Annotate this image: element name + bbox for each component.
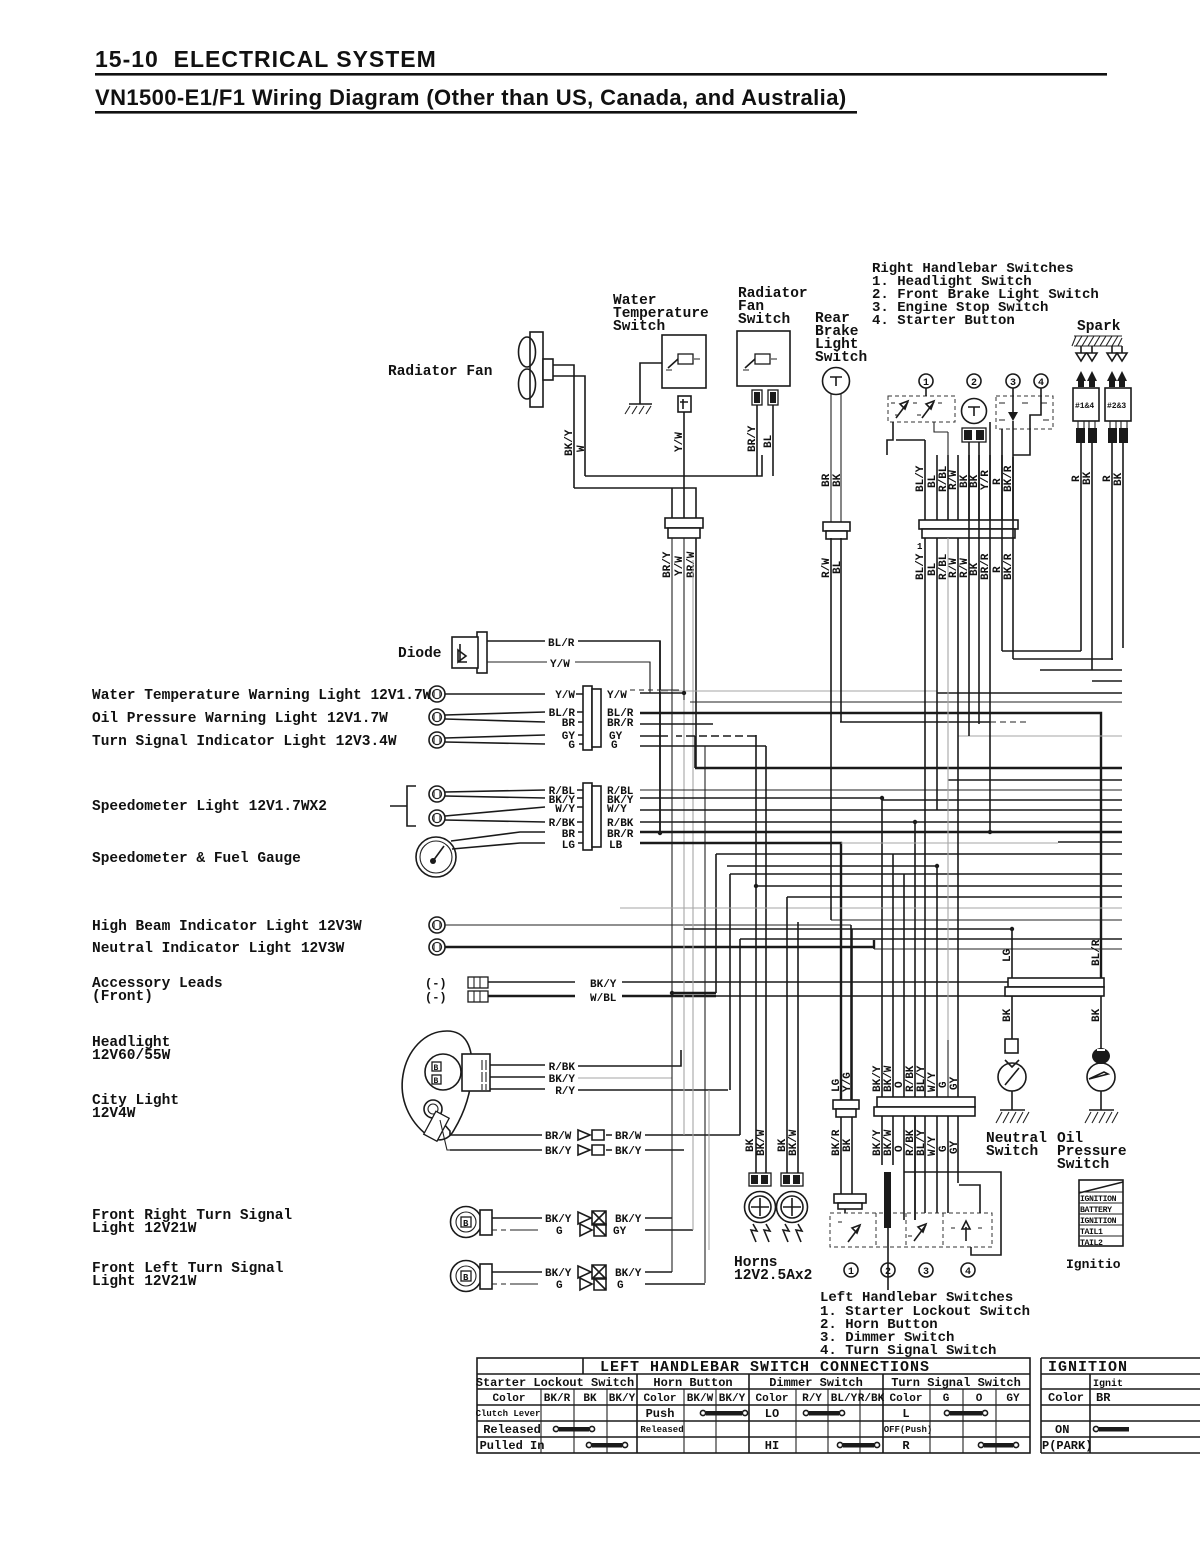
svg-text:BK: BK xyxy=(1091,1008,1103,1022)
svg-text:1: 1 xyxy=(848,1267,854,1278)
svg-text:TAIL2: TAIL2 xyxy=(1080,1239,1103,1248)
svg-text:VN1500-E1/F1 Wiring Diagram (O: VN1500-E1/F1 Wiring Diagram (Other than … xyxy=(95,85,847,110)
svg-text:BK/Y: BK/Y xyxy=(564,429,576,456)
svg-text:Y/W: Y/W xyxy=(555,690,575,702)
svg-text:Water Temperature Warning Ligh: Water Temperature Warning Light 12V1.7W xyxy=(92,688,432,704)
svg-text:BK: BK xyxy=(1113,472,1125,486)
svg-text:BK/Y: BK/Y xyxy=(609,1393,636,1405)
svg-text:BL/Y: BL/Y xyxy=(915,465,927,492)
svg-text:Y/W: Y/W xyxy=(550,659,570,671)
svg-text:1: 1 xyxy=(923,378,929,389)
svg-text:R/BK: R/BK xyxy=(549,1062,576,1074)
svg-text:BL/R: BL/R xyxy=(1091,939,1103,966)
svg-text:IGNITION: IGNITION xyxy=(1048,1359,1128,1376)
svg-text:Starter Lockout Switch: Starter Lockout Switch xyxy=(476,1376,634,1390)
svg-text:#2&3: #2&3 xyxy=(1107,402,1126,411)
svg-text:Turn Signal Indicator Light 12: Turn Signal Indicator Light 12V3.4W xyxy=(92,734,397,750)
svg-text:Pulled In: Pulled In xyxy=(480,1439,545,1453)
svg-text:L: L xyxy=(902,1407,909,1421)
svg-text:4: 4 xyxy=(1038,378,1044,389)
svg-text:4: 4 xyxy=(965,1267,971,1278)
svg-text:GY: GY xyxy=(1006,1393,1020,1405)
svg-text:O: O xyxy=(976,1393,983,1405)
svg-text:G: G xyxy=(617,1280,624,1292)
svg-text:BK/Y: BK/Y xyxy=(615,1268,642,1280)
svg-text:W/Y: W/Y xyxy=(607,804,627,816)
svg-text:LB: LB xyxy=(609,840,623,852)
svg-text:15-10 ELECTRICAL SYSTEM: 15-10 ELECTRICAL SYSTEM xyxy=(95,46,437,72)
svg-text:BK: BK xyxy=(1002,1008,1014,1022)
svg-text:Oil Pressure Warning Light 12V: Oil Pressure Warning Light 12V1.7W xyxy=(92,711,388,727)
svg-text:Speedometer & Fuel Gauge: Speedometer & Fuel Gauge xyxy=(92,851,301,867)
svg-text:GY: GY xyxy=(949,1076,961,1090)
svg-text:Light 12V21W: Light 12V21W xyxy=(92,1221,197,1237)
svg-text:BK/R: BK/R xyxy=(544,1393,571,1405)
svg-text:R/Y: R/Y xyxy=(802,1393,822,1405)
svg-text:W/BL: W/BL xyxy=(590,993,617,1005)
svg-text:BR: BR xyxy=(562,718,576,730)
svg-text:BK/Y: BK/Y xyxy=(545,1146,572,1158)
svg-text:Dimmer Switch: Dimmer Switch xyxy=(769,1376,863,1390)
svg-text:4. Starter Button: 4. Starter Button xyxy=(872,313,1015,329)
svg-text:Switch: Switch xyxy=(815,350,867,366)
svg-text:Neutral Indicator Light 12V3W: Neutral Indicator Light 12V3W xyxy=(92,941,345,957)
svg-text:R: R xyxy=(902,1439,910,1453)
svg-text:Switch: Switch xyxy=(613,319,665,335)
svg-text:Spark: Spark xyxy=(1077,319,1121,335)
svg-text:Released: Released xyxy=(483,1423,541,1437)
svg-text:BK/Y: BK/Y xyxy=(545,1268,572,1280)
svg-text:G: G xyxy=(611,740,618,752)
svg-text:BK: BK xyxy=(583,1393,597,1405)
svg-text:BL: BL xyxy=(763,434,775,448)
svg-text:Y/W: Y/W xyxy=(607,690,627,702)
svg-text:GY: GY xyxy=(949,1140,961,1154)
svg-text:Push: Push xyxy=(646,1407,675,1421)
svg-text:Diode: Diode xyxy=(398,646,442,662)
svg-text:BR/W: BR/W xyxy=(545,1131,572,1143)
svg-text:BR/W: BR/W xyxy=(615,1131,642,1143)
svg-text:G: G xyxy=(568,740,575,752)
svg-text:P(PARK): P(PARK) xyxy=(1042,1439,1092,1453)
svg-text:HI: HI xyxy=(765,1439,779,1453)
svg-text:Y/W: Y/W xyxy=(674,432,686,452)
svg-text:Color: Color xyxy=(643,1393,676,1405)
svg-text:4. Turn Signal Switch: 4. Turn Signal Switch xyxy=(820,1343,996,1359)
svg-text:BR/Y: BR/Y xyxy=(747,425,759,452)
svg-text:Horn Button: Horn Button xyxy=(653,1376,732,1390)
svg-text:(-): (-) xyxy=(425,977,447,991)
svg-text:Light 12V21W: Light 12V21W xyxy=(92,1274,197,1290)
svg-text:BK/Y: BK/Y xyxy=(590,979,617,991)
svg-text:Y/G: Y/G xyxy=(842,1072,854,1092)
svg-text:Speedometer Light 12V1.7WX2: Speedometer Light 12V1.7WX2 xyxy=(92,799,327,815)
svg-text:Color: Color xyxy=(889,1393,922,1405)
svg-text:3: 3 xyxy=(1010,378,1016,389)
svg-text:(-): (-) xyxy=(425,991,447,1005)
svg-text:3: 3 xyxy=(923,1267,929,1278)
svg-text:W/Y: W/Y xyxy=(555,804,575,816)
svg-text:Turn Signal Switch: Turn Signal Switch xyxy=(891,1376,1021,1390)
svg-text:BR: BR xyxy=(1096,1391,1111,1405)
svg-text:LG: LG xyxy=(562,840,576,852)
svg-text:Ignitio: Ignitio xyxy=(1066,1257,1121,1272)
svg-text:BK/W: BK/W xyxy=(687,1393,714,1405)
svg-text:B: B xyxy=(463,1219,469,1229)
svg-text:BL/R: BL/R xyxy=(548,638,575,650)
svg-text:BK: BK xyxy=(842,1138,854,1152)
svg-text:BL/Y: BL/Y xyxy=(831,1393,858,1405)
svg-text:ON: ON xyxy=(1055,1423,1069,1437)
svg-text:R/BK: R/BK xyxy=(858,1393,885,1405)
svg-text:BK/Y: BK/Y xyxy=(545,1214,572,1226)
svg-text:BL: BL xyxy=(832,560,844,574)
svg-text:LEFT HANDLEBAR SWITCH CONNECTI: LEFT HANDLEBAR SWITCH CONNECTIONS xyxy=(600,1359,930,1376)
svg-text:2: 2 xyxy=(971,378,977,389)
svg-text:#1&4: #1&4 xyxy=(1075,402,1094,411)
svg-text:B: B xyxy=(463,1273,469,1283)
svg-text:Clutch Lever: Clutch Lever xyxy=(476,1409,541,1419)
svg-text:W: W xyxy=(576,445,588,452)
svg-text:BK/W: BK/W xyxy=(788,1129,800,1156)
svg-text:G: G xyxy=(943,1393,950,1405)
svg-text:Radiator Fan: Radiator Fan xyxy=(388,364,492,380)
svg-text:BK/Y: BK/Y xyxy=(615,1214,642,1226)
svg-text:(Front): (Front) xyxy=(92,989,153,1005)
svg-text:B: B xyxy=(434,1064,439,1073)
svg-text:Color: Color xyxy=(755,1393,788,1405)
svg-text:Switch: Switch xyxy=(986,1144,1038,1160)
svg-text:12V2.5Ax2: 12V2.5Ax2 xyxy=(734,1268,812,1284)
svg-text:BK/Y: BK/Y xyxy=(719,1393,746,1405)
svg-text:G: G xyxy=(556,1280,563,1292)
svg-text:2: 2 xyxy=(885,1267,891,1278)
svg-text:BK: BK xyxy=(1082,471,1094,485)
svg-text:BK/Y: BK/Y xyxy=(549,1074,576,1086)
svg-text:Ignit: Ignit xyxy=(1093,1378,1123,1390)
svg-text:1: 1 xyxy=(917,542,923,552)
svg-text:BK/W: BK/W xyxy=(756,1129,768,1156)
svg-text:BK/Y: BK/Y xyxy=(615,1146,642,1158)
svg-text:B: B xyxy=(434,1077,439,1086)
svg-text:BR/R: BR/R xyxy=(607,718,634,730)
svg-text:GY: GY xyxy=(613,1226,627,1238)
svg-text:12V60/55W: 12V60/55W xyxy=(92,1048,171,1064)
svg-text:Color: Color xyxy=(1048,1391,1084,1405)
svg-text:G: G xyxy=(556,1226,563,1238)
svg-text:BK: BK xyxy=(832,473,844,487)
svg-text:R/Y: R/Y xyxy=(555,1086,575,1098)
svg-text:Released: Released xyxy=(640,1425,683,1435)
svg-text:High Beam Indicator Light 12V3: High Beam Indicator Light 12V3W xyxy=(92,919,362,935)
svg-text:12V4W: 12V4W xyxy=(92,1106,136,1122)
svg-text:OFF(Push): OFF(Push) xyxy=(884,1425,933,1435)
svg-text:Switch: Switch xyxy=(738,312,790,328)
svg-text:LO: LO xyxy=(765,1407,779,1421)
svg-text:Switch: Switch xyxy=(1057,1157,1109,1173)
svg-text:Color: Color xyxy=(492,1393,525,1405)
